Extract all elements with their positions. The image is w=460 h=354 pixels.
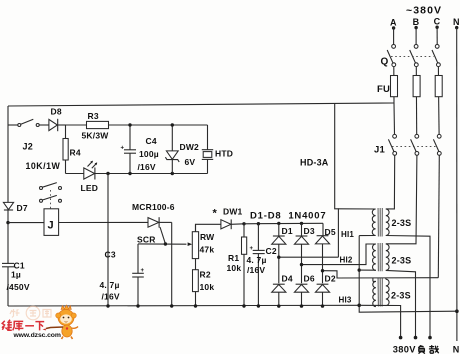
- svg-text:/450V: /450V: [7, 282, 30, 292]
- svg-text:N: N: [453, 17, 460, 27]
- resistor R4: [63, 125, 68, 174]
- label H12: [340, 256, 353, 265]
- svg-text:D7: D7: [17, 203, 28, 213]
- diode D1 label: [282, 226, 293, 236]
- diode D2: [315, 284, 329, 306]
- switch Q linkage dashed line: [391, 55, 434, 57]
- wire DW1 node to bridge positive bus: [244, 222, 323, 225]
- svg-text:D2: D2: [325, 274, 336, 284]
- label rectifier diodes D1-D8 1N4007: [250, 211, 326, 222]
- node bus dot under C3: [136, 304, 139, 307]
- node bus dot under SCR cathode: [170, 304, 173, 307]
- diode D8 label: [51, 107, 62, 117]
- svg-text:DW1: DW1: [223, 207, 243, 217]
- node DW2 top junction dot: [171, 123, 174, 126]
- potentiometer RW wiper arrow: [188, 242, 193, 246]
- capacitor C4 label: [146, 136, 157, 146]
- svg-text:10k: 10k: [200, 282, 215, 292]
- relay J linkage dashed line: [50, 190, 52, 209]
- wire SCR cathode down to bottom bus: [171, 222, 173, 306]
- svg-text:RW: RW: [200, 232, 215, 242]
- wire fuse to contactor J1 phase C: [438, 103, 440, 134]
- resistor R2 value label 10k: [200, 282, 215, 292]
- wire relay J coil to SCR anode: [59, 221, 148, 223]
- node DW2 bottom junction dot: [171, 172, 174, 175]
- resistor R3 value label 5K/3W: [82, 131, 110, 141]
- transformer T1 secondary winding: [386, 209, 389, 236]
- svg-text:/16V: /16V: [247, 265, 265, 275]
- svg-text:+: +: [121, 146, 125, 152]
- switch Q label: [381, 57, 389, 68]
- svg-text:~380V: ~380V: [406, 5, 442, 17]
- svg-text:R4: R4: [70, 148, 81, 158]
- capacitor C3: [132, 244, 144, 306]
- wire Q to fuse FU phase A: [393, 67, 395, 103]
- label load chinese char ZAI (load): [429, 345, 439, 353]
- contactor J1 contact phase A: [388, 134, 396, 155]
- watermark red text wei ku yi xia (dzsc slogan): [2, 320, 44, 331]
- LED indicator: [66, 161, 98, 180]
- svg-text:2-3S: 2-3S: [392, 218, 412, 228]
- svg-text:FU: FU: [377, 84, 390, 95]
- resistor R1 label: [228, 253, 239, 263]
- zener diode DW2 value label 6V: [185, 157, 196, 167]
- resistor R3 label: [88, 111, 99, 121]
- resistor R2 label: [200, 270, 211, 280]
- capacitor C2: [250, 224, 265, 306]
- wire fuse to contactor J1 phase A: [393, 103, 396, 134]
- node H12 tap dot: [300, 263, 303, 266]
- label H13: [339, 296, 352, 305]
- svg-text:Q: Q: [381, 57, 389, 68]
- wire Q to fuse FU phase B: [415, 67, 417, 103]
- fuse FU phase B: [413, 76, 420, 97]
- node riser dot at bottom bus: [357, 304, 361, 308]
- wire control box top border: [8, 103, 394, 106]
- capacitor C3 value label /16V: [102, 292, 120, 302]
- watermark mascot monkey: [43, 305, 79, 339]
- svg-text:D8: D8: [51, 107, 62, 117]
- node bus dot under C2: [257, 304, 260, 307]
- svg-text:D1-D8 1N4007: D1-D8 1N4007: [250, 211, 326, 222]
- node bus dot under D2: [321, 304, 324, 307]
- transformer T2 core: [378, 243, 382, 271]
- svg-text:+: +: [141, 268, 145, 274]
- zener diode DW1 label: [223, 207, 243, 217]
- wire J1 phase C down to common node wire: [438, 155, 439, 277]
- node bus dot under R1: [242, 304, 245, 307]
- fuse FU phase C: [435, 76, 442, 97]
- wire gate line from C3 to RW wiper: [138, 243, 186, 245]
- wire RW top to DW1: [196, 224, 221, 231]
- node bridge bus dot at D3: [300, 222, 303, 225]
- svg-text:2-3S: 2-3S: [391, 291, 411, 301]
- transformer T1 core: [378, 208, 382, 237]
- wire phase A drop to switch Q: [393, 28, 395, 45]
- diode D7: [3, 202, 13, 210]
- wire Q to fuse FU phase C: [437, 67, 439, 103]
- node neutral N terminal (top): [453, 17, 460, 29]
- wire neutral N vertical line: [456, 28, 458, 341]
- transformer T1 primary winding: [372, 209, 375, 236]
- node load terminal 2: [414, 336, 418, 340]
- relay J coil box: [44, 209, 59, 236]
- resistor R2: [193, 259, 199, 306]
- contactor J1 label: [374, 145, 385, 156]
- capacitor C2 value label /16V: [247, 265, 265, 275]
- wire T2 primary bottom lead: [359, 269, 376, 271]
- svg-text:C3: C3: [105, 250, 116, 260]
- svg-text:/16V: /16V: [102, 292, 120, 302]
- capacitor C3 label: [105, 250, 116, 260]
- wire common riser x359: [358, 236, 360, 306]
- wire control box left border: [7, 106, 9, 306]
- wire H11 from bridge leg 1 to riser: [279, 256, 339, 258]
- svg-text:D4: D4: [282, 274, 293, 284]
- LED label: [81, 183, 99, 193]
- svg-text:J2: J2: [23, 142, 33, 152]
- svg-text:D6: D6: [304, 274, 315, 284]
- diode D4: [272, 284, 286, 306]
- zener diode DW1: [221, 219, 244, 229]
- node ~380V supply label: [406, 5, 442, 17]
- wire T1 primary bottom to common riser: [359, 235, 375, 237]
- resistor R1 value label 10k: [227, 263, 242, 273]
- svg-text:2-3S: 2-3S: [392, 256, 412, 266]
- svg-text:N: N: [453, 345, 460, 354]
- svg-text:LED: LED: [81, 183, 99, 193]
- svg-text:MCR100-6: MCR100-6: [132, 202, 175, 212]
- wire J1 phase A down to T1 secondary top: [386, 155, 395, 209]
- label N terminal (bottom): [453, 345, 460, 354]
- capacitor C2 label: [266, 246, 277, 256]
- node load terminal 1: [399, 336, 403, 340]
- svg-text:380V: 380V: [393, 345, 416, 354]
- node riser dot at T2 primary bottom: [358, 268, 361, 271]
- relay J contact pair 1: [40, 183, 62, 190]
- svg-text:6V: 6V: [185, 157, 196, 167]
- label H11: [341, 230, 354, 239]
- zener diode DW2 label: [180, 142, 200, 152]
- svg-text:J1: J1: [374, 145, 385, 156]
- node load terminal 3: [428, 336, 432, 340]
- wire D8 node to R3: [66, 124, 87, 126]
- zener diode DW2: [165, 125, 179, 174]
- thyristor SCR MCR100-6: [148, 217, 172, 244]
- node phase C terminal: [434, 17, 441, 29]
- wire J1 phase B down to T2 secondary top: [386, 155, 417, 244]
- svg-text:DW2: DW2: [180, 142, 200, 152]
- transformer T3 primary winding: [373, 281, 376, 306]
- svg-text:/16V: /16V: [138, 162, 156, 172]
- label HD-3A module designation: [300, 158, 329, 168]
- transformer T3 core: [378, 278, 382, 307]
- svg-text:R3: R3: [88, 111, 99, 121]
- contactor J1 contact phase C: [433, 134, 441, 155]
- svg-text:100µ: 100µ: [139, 149, 159, 159]
- node C-wire tap dot at bridge leg 3: [321, 269, 324, 272]
- wire control box bottom bus (left part): [8, 304, 359, 307]
- diode D7 label: [17, 203, 28, 213]
- svg-text:SCR: SCR: [137, 235, 156, 245]
- capacitor C1 value label 1u: [11, 270, 21, 280]
- svg-text:10k: 10k: [227, 263, 242, 273]
- svg-text:C2: C2: [266, 246, 277, 256]
- buzzer HTD: [202, 125, 213, 174]
- wire control box right border merging into H11 riser: [335, 103, 339, 257]
- contactor J1 linkage dashed line: [392, 146, 436, 148]
- wire bridge bus bend into D5: [322, 223, 324, 235]
- switch Q pole A: [387, 45, 395, 67]
- svg-text:1µ: 1µ: [11, 270, 21, 280]
- node LED junction dot: [106, 172, 109, 175]
- diode D5: [315, 236, 329, 284]
- wire H11 top run to T1 primary: [338, 208, 375, 210]
- potentiometer RW value label 47k: [200, 245, 215, 255]
- resistor R4 label: [70, 148, 81, 158]
- wire T1 secondary bottom to load line 3: [386, 236, 430, 338]
- wire T3 coil bottoms to load line 1: [359, 305, 400, 337]
- diode D3: [294, 223, 308, 283]
- svg-text:10K/1W: 10K/1W: [26, 161, 61, 171]
- watermark url www.dzsc.com: [13, 332, 61, 339]
- diode D5 label: [325, 227, 336, 237]
- svg-text:4. 7µ: 4. 7µ: [247, 255, 267, 265]
- node bus dot under D4: [277, 304, 280, 307]
- wire phase B drop to switch Q: [415, 28, 417, 45]
- resistor R4 value label 10K/1W: [26, 161, 61, 171]
- node phase A terminal: [390, 18, 397, 30]
- svg-text:D3: D3: [304, 226, 315, 236]
- node phase B terminal: [413, 17, 420, 29]
- wire left border to relay J coil: [8, 222, 44, 224]
- svg-text:HI1: HI1: [341, 230, 354, 239]
- svg-text:HTD: HTD: [215, 149, 233, 159]
- svg-text:HI3: HI3: [339, 296, 352, 305]
- svg-text:C4: C4: [146, 136, 157, 146]
- switch J2 label: [23, 142, 33, 152]
- svg-text:D5: D5: [325, 227, 336, 237]
- node C4 bottom junction dot: [128, 172, 131, 175]
- diode D3 label: [304, 226, 315, 236]
- svg-text:R2: R2: [200, 270, 211, 280]
- label load chinese char FU (negative/load): [418, 345, 425, 353]
- svg-text:HI2: HI2: [340, 256, 353, 265]
- node bus dot under LED junction: [106, 304, 109, 307]
- wire LED junction down to bottom bus: [107, 174, 109, 307]
- node C2 top junction dot: [257, 222, 260, 225]
- svg-text:B: B: [413, 17, 420, 27]
- node H11 tap dot: [277, 256, 280, 259]
- svg-text:4. 7µ: 4. 7µ: [100, 280, 120, 290]
- transformer T2 primary winding: [372, 244, 375, 270]
- capacitor C1 value label /450V: [7, 282, 30, 292]
- transformer T2 secondary winding: [386, 244, 389, 270]
- svg-text:C: C: [434, 17, 441, 27]
- diode D6: [294, 284, 308, 306]
- thyristor type label MCR100-6: [132, 202, 175, 212]
- watermark ghost text wei ku wang: [10, 306, 51, 320]
- diode D6 label: [304, 274, 315, 284]
- node gate junction dot: [164, 242, 167, 245]
- label 380V load terminals (380V): [393, 345, 416, 354]
- node C4 top junction dot: [128, 123, 131, 126]
- capacitor C1: [2, 263, 14, 266]
- label T3 ratio 2-3S: [391, 291, 411, 301]
- label T1 ratio 2-3S: [392, 218, 412, 228]
- svg-text:D1: D1: [282, 226, 293, 236]
- svg-text:www.dzsc.com: www.dzsc.com: [13, 332, 61, 339]
- wire T3 primary top bend from common wire: [372, 278, 374, 282]
- potentiometer RW: [192, 224, 198, 258]
- label T2 ratio 2-3S: [392, 256, 412, 266]
- fuse FU label: [377, 84, 390, 95]
- contactor J1 contact phase B: [411, 134, 419, 155]
- resistor R3: [87, 121, 208, 128]
- diode D4 label: [282, 274, 293, 284]
- svg-text:HD-3A: HD-3A: [300, 158, 329, 168]
- potentiometer RW label: [200, 232, 215, 242]
- switch Q pole B: [410, 45, 418, 67]
- wire common node phase C / D2 leg / T3 tops: [323, 271, 439, 278]
- wire H12 from bridge leg 2 to T2 primary top: [302, 244, 376, 265]
- node bus dot under R2: [194, 304, 197, 307]
- capacitor C4 value label /16V: [138, 162, 156, 172]
- relay J contact pair 2: [40, 195, 62, 202]
- node bridge bus dot at D1: [277, 222, 280, 225]
- node junction left border to relay coil: [6, 221, 9, 224]
- capacitor C2 value label 4.7u: [247, 255, 267, 265]
- fuse FU phase A: [391, 76, 398, 97]
- transformer T3 secondary winding: [386, 279, 389, 305]
- capacitor C3 value label 4.7u: [100, 280, 120, 290]
- diode D2 label: [325, 274, 336, 284]
- capacitor C4: [121, 125, 137, 174]
- wire T3 secondary top stub: [385, 278, 387, 280]
- wire LED cathode to HTD return rail: [95, 173, 208, 175]
- switch J2: [8, 119, 49, 126]
- capacitor C1 label: [14, 261, 25, 271]
- capacitor C4 value label 100u: [139, 149, 159, 159]
- svg-text:47k: 47k: [200, 245, 215, 255]
- wire phase C drop to switch Q: [436, 27, 438, 44]
- resistor R1: [242, 224, 247, 306]
- svg-text:5K/3W: 5K/3W: [82, 131, 110, 141]
- switch Q pole C: [432, 45, 440, 67]
- buzzer HTD label: [215, 149, 233, 159]
- thyristor SCR label: [137, 235, 156, 245]
- wire fuse to contactor J1 phase B: [416, 103, 418, 134]
- wire T2 secondary bottom to load line 2: [386, 270, 416, 337]
- svg-text:+: +: [250, 246, 254, 252]
- diode D8: [49, 119, 66, 131]
- zener diode DW1 star mark: [213, 208, 218, 220]
- svg-text:*: *: [213, 208, 218, 220]
- wire main bus step down and run to N line: [359, 305, 457, 312]
- svg-text:J: J: [48, 220, 54, 232]
- node bus dot under D6: [300, 304, 303, 307]
- svg-text:R1: R1: [228, 253, 239, 263]
- diode D1: [272, 223, 286, 283]
- node DW1 cathode junction dot: [242, 222, 245, 225]
- node junction bus to N line: [455, 309, 459, 313]
- svg-text:A: A: [390, 18, 397, 28]
